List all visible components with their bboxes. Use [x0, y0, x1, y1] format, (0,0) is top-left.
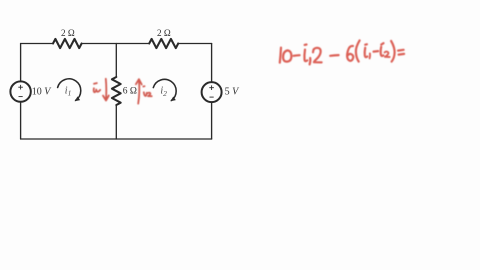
handwritten minus: [374, 50, 379, 53]
svg-text:10 V: 10 V: [32, 86, 53, 97]
svg-text:5 V: 5 V: [225, 87, 241, 98]
wire left vertical above source: [20, 44, 22, 82]
svg-text:i2: i2: [160, 86, 167, 98]
handwritten subscript 1: [369, 53, 371, 58]
wire right vertical above source: [211, 44, 213, 83]
wire top-right segment: [178, 43, 211, 45]
handwritten minus: [330, 54, 338, 57]
voltage source V2 circle: [202, 82, 222, 102]
handwritten subscript 1 (comma): [309, 58, 312, 64]
red label v2: [143, 85, 144, 87]
wire top-middle segment: [82, 43, 150, 45]
handwritten minus: [294, 54, 300, 57]
mesh current arrow i1 arc: [58, 79, 81, 101]
wire top-left segment: [21, 43, 53, 45]
red handwritten annotations near R3: [94, 79, 152, 104]
wire bottom segment: [21, 138, 212, 140]
handwritten 6: [347, 46, 353, 61]
arrowhead of i1: [75, 96, 81, 101]
handwritten equals: [398, 50, 404, 55]
handwritten i stem: [304, 50, 307, 62]
handwritten close paren: [391, 41, 395, 62]
svg-text:2 Ω: 2 Ω: [157, 28, 171, 38]
plus/minus marks of source V2: [209, 85, 214, 97]
handwritten open paren: [356, 40, 360, 61]
handwritten i dot: [305, 43, 307, 46]
red handwritten equation: 10 - i1 2 - 6(i1-i2)=: [280, 40, 404, 64]
wire left vertical below source: [20, 102, 22, 139]
red arrow down (current direction): [105, 79, 108, 100]
plus/minus marks of source V1: [18, 85, 23, 97]
wire right vertical below source: [211, 102, 213, 139]
handwritten 2: [313, 48, 322, 63]
wire middle vertical above R3: [115, 44, 117, 78]
resistor R2 2ohm zigzag: [149, 39, 178, 48]
mesh current arrow i2 arc: [153, 79, 176, 100]
resistor R1 2ohm zigzag: [53, 39, 82, 48]
wire middle vertical below R3: [115, 105, 117, 139]
svg-text:6 Ω: 6 Ω: [123, 87, 137, 97]
handwritten i stem: [365, 48, 368, 57]
resistor R3 6ohm vertical zigzag: [112, 77, 121, 105]
voltage source V1 circle: [10, 81, 30, 101]
arrowhead of i2: [170, 97, 175, 102]
red label i1 (current into R3): [94, 82, 97, 85]
handwritten 1: [280, 48, 281, 63]
handwritten i dot: [365, 43, 367, 46]
handwritten i accent: [381, 43, 383, 44]
svg-text:2 Ω: 2 Ω: [61, 28, 75, 38]
handwritten 0: [283, 50, 291, 61]
handwritten subscript 2: [385, 52, 390, 57]
svg-text:i1: i1: [65, 85, 72, 97]
red arrow up (v2 polarity): [138, 80, 139, 104]
handwritten i stem: [381, 47, 384, 56]
